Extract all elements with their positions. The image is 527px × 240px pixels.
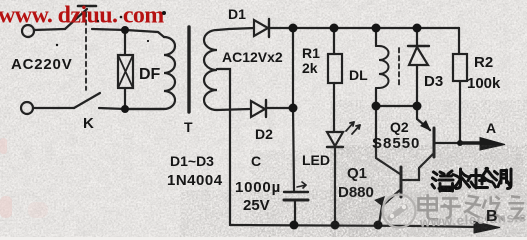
red watermark www.dziuu.com: [0, 3, 164, 29]
svg-text:DF: DF: [139, 66, 161, 83]
terminal top-left: [22, 25, 34, 37]
svg-text:T: T: [184, 119, 193, 135]
transistor Q2 emitter: [417, 106, 430, 130]
wire secondary center tap: [217, 69, 230, 225]
transistor Q2 collector: [403, 154, 433, 180]
svg-text:1N4004: 1N4004: [167, 172, 223, 189]
node: DL bottom: [372, 102, 381, 111]
wire: [267, 107, 293, 109]
svg-text:D880: D880: [338, 184, 374, 201]
node: D3 top: [413, 24, 422, 33]
capacitor C plates: [284, 191, 308, 193]
title 溢水检测: [432, 169, 511, 192]
svg-text:AC220V: AC220V: [11, 56, 73, 73]
Q1 emitter arrowhead: [374, 196, 385, 206]
surge absorber DF: [118, 55, 133, 88]
svg-text:D1: D1: [228, 6, 246, 22]
transformer T secondary winding: [204, 30, 217, 110]
terminal bottom-left: [21, 102, 33, 114]
wire: [34, 29, 65, 30]
svg-text:K: K: [83, 115, 94, 132]
node: cap ground: [290, 221, 299, 230]
node: D3 bottom: [413, 102, 422, 111]
svg-text:AC12Vx2: AC12Vx2: [222, 49, 283, 65]
transistor Q2 base lead: [435, 142, 460, 144]
transistor Q1 collector: [376, 106, 400, 174]
wire secondary top lead: [217, 28, 254, 30]
relay core dashed: [398, 48, 400, 86]
svg-text:D1~D3: D1~D3: [170, 153, 214, 169]
node: switch/DF top: [121, 26, 129, 34]
ground rail: [230, 225, 476, 227]
svg-text:C: C: [251, 153, 261, 169]
diode D3 leads: [416, 28, 418, 106]
svg-text:A: A: [486, 120, 496, 136]
switch gang dashed link: [85, 12, 87, 90]
relay coil DL leads: [375, 28, 377, 106]
LED emission arrows: [346, 122, 360, 134]
svg-text:D2: D2: [255, 126, 273, 142]
LED: [327, 132, 343, 146]
wire cap to ground rail: [294, 200, 296, 225]
svg-text:R1: R1: [302, 45, 320, 61]
resistor R1 leads: [333, 28, 335, 132]
transistor Q1 emitter: [379, 190, 400, 224]
char 水: [453, 169, 470, 189]
node: R1 top: [330, 24, 339, 33]
transistor Q2 base bar: [433, 128, 436, 157]
Q2 emitter arrowhead: [420, 120, 431, 131]
resistor R2: [453, 54, 467, 81]
light overlay speckle: [330, 145, 527, 237]
probe arrow A: [460, 138, 505, 151]
capacitor polarity arrow: [297, 185, 306, 187]
+ rail down from D1/D2 to capacitor: [293, 28, 294, 191]
svg-text:DL: DL: [349, 67, 368, 83]
svg-text:S8550: S8550: [372, 135, 420, 152]
pink scan smudges left edge: [0, 138, 48, 218]
transistor Q1 base bar: [400, 167, 403, 197]
node: switch/DF bottom: [121, 105, 129, 113]
node: LED ground: [331, 221, 340, 230]
grey watermark 电子发烧友: [418, 194, 524, 220]
top rail: [293, 27, 459, 29]
wire secondary bottom lead: [217, 109, 250, 110]
diode D2: [251, 101, 265, 117]
resistor R1: [328, 54, 342, 83]
wire: [270, 27, 293, 29]
wire: [33, 107, 74, 109]
probe arrow B: [474, 222, 500, 234]
node: D2 cathode rail: [289, 104, 298, 113]
grey watermark logo circle: [383, 195, 416, 228]
svg-text:LED: LED: [302, 152, 330, 168]
transformer core: [187, 27, 190, 112]
node: D1 cathode rail: [289, 24, 298, 33]
svg-text:B: B: [486, 208, 498, 225]
svg-text:R2: R2: [474, 54, 493, 71]
svg-text:D3: D3: [424, 73, 443, 90]
node: Q1 emitter ground: [374, 221, 383, 230]
wire: [99, 108, 164, 109]
wire DF top lead: [124, 30, 126, 55]
char 检: [468, 169, 493, 189]
resistor R2 lead: [459, 28, 460, 143]
diode D3: [408, 45, 429, 47]
switch K bottom arm: [74, 93, 100, 108]
wire: [92, 29, 164, 37]
svg-text:1000µ: 1000µ: [235, 179, 281, 196]
switch K top bar: [78, 5, 96, 8]
svg-text:2k: 2k: [302, 60, 318, 76]
wire LED to ground rail: [334, 147, 336, 225]
char 测: [494, 169, 512, 189]
svg-text:100k: 100k: [467, 75, 501, 92]
scan specks: [56, 11, 166, 46]
diode D1: [254, 20, 268, 36]
node wire DL-D3 bottom: [376, 105, 417, 107]
transformer T primary winding: [125, 37, 175, 109]
node: Q2 base / R2: [457, 140, 463, 146]
scan noise bottom right: [250, 150, 335, 237]
grey watermark www.elecfans.com: [418, 208, 527, 230]
svg-text:Q2: Q2: [390, 119, 409, 135]
wire DF bottom lead: [124, 88, 126, 109]
svg-text:Q1: Q1: [347, 165, 367, 182]
switch K top arm: [65, 9, 87, 29]
node: DL top: [372, 24, 381, 33]
svg-text:www. dziuu. com: www. dziuu. com: [0, 3, 164, 29]
svg-text:25V: 25V: [243, 197, 270, 214]
relay coil DL: [379, 46, 389, 88]
char 溢: [432, 171, 453, 191]
